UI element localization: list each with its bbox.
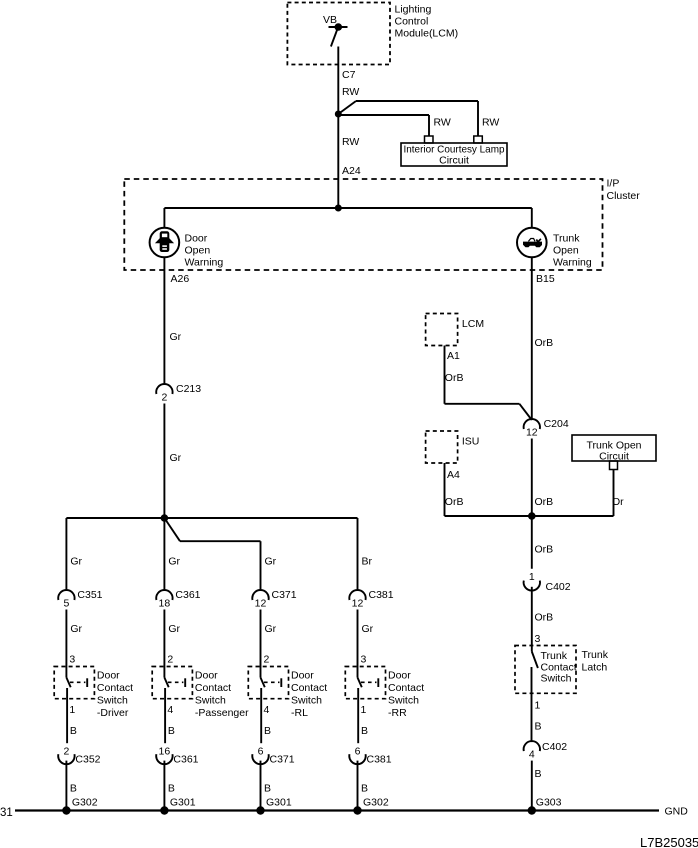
svg-text:2: 2 [264,654,270,666]
svg-text:Control: Control [395,16,429,28]
svg-text:C361: C361 [173,753,198,765]
svg-text:Switch: Switch [195,694,226,706]
svg-text:B: B [168,783,175,795]
svg-text:12: 12 [352,597,364,609]
svg-text:31: 31 [0,807,13,819]
svg-text:Open: Open [553,245,579,257]
svg-text:C213: C213 [176,383,201,395]
svg-text:OrB: OrB [535,496,554,508]
svg-text:Gr: Gr [265,556,277,568]
svg-text:Lighting: Lighting [395,4,432,16]
svg-text:RW: RW [342,86,359,98]
svg-text:G301: G301 [266,797,292,809]
svg-text:ISU: ISU [462,436,480,448]
svg-text:-RL: -RL [291,707,308,719]
svg-text:Circuit: Circuit [439,155,469,167]
svg-text:B: B [535,768,542,780]
svg-text:-Driver: -Driver [97,707,129,719]
svg-text:LCM: LCM [462,318,484,330]
svg-text:4: 4 [529,748,535,760]
svg-text:A24: A24 [342,165,361,177]
svg-text:B15: B15 [536,273,555,285]
svg-text:VB: VB [323,14,337,26]
svg-text:Switch: Switch [388,694,419,706]
svg-text:C381: C381 [367,753,392,765]
svg-text:Gr: Gr [70,556,82,568]
svg-text:18: 18 [159,597,171,609]
svg-text:B: B [264,725,271,737]
svg-text:G302: G302 [72,797,98,809]
svg-text:1: 1 [361,704,367,716]
svg-text:2: 2 [63,745,69,757]
svg-text:OrB: OrB [445,496,464,508]
svg-text:Open: Open [185,245,211,257]
svg-text:C402: C402 [542,741,567,753]
svg-text:Br: Br [362,556,373,568]
svg-text:Contact: Contact [291,682,327,694]
svg-text:I/P: I/P [607,178,620,190]
svg-text:Gr: Gr [168,623,180,635]
svg-text:Gr: Gr [362,623,374,635]
svg-text:RW: RW [482,117,499,129]
svg-text:GND: GND [665,806,689,818]
svg-text:4: 4 [264,704,270,716]
svg-text:OrB: OrB [535,612,554,624]
svg-text:C351: C351 [77,589,102,601]
svg-text:Switch: Switch [291,694,322,706]
svg-text:1: 1 [69,704,75,716]
svg-text:B: B [168,725,175,737]
svg-text:6: 6 [258,745,264,757]
svg-text:Door: Door [97,669,120,681]
svg-text:12: 12 [526,426,538,438]
svg-text:3: 3 [535,633,541,645]
svg-text:OrB: OrB [535,544,554,556]
svg-text:B: B [361,783,368,795]
svg-text:Door: Door [195,669,218,681]
svg-text:2: 2 [167,654,173,666]
svg-text:5: 5 [63,597,69,609]
svg-text:G302: G302 [363,797,389,809]
svg-text:-RR: -RR [388,707,407,719]
svg-text:3: 3 [69,654,75,666]
svg-text:Switch: Switch [541,672,572,684]
svg-text:G301: G301 [170,797,196,809]
svg-text:Trunk: Trunk [553,233,580,245]
svg-text:Switch: Switch [97,694,128,706]
svg-text:Gr: Gr [265,623,277,635]
svg-text:Warning: Warning [553,257,592,269]
svg-text:B: B [70,783,77,795]
svg-text:Door: Door [388,669,411,681]
svg-text:RW: RW [434,117,451,129]
svg-text:16: 16 [159,745,171,757]
svg-text:Door: Door [291,669,314,681]
svg-text:A1: A1 [447,350,460,362]
svg-text:OrB: OrB [445,372,464,384]
svg-text:Latch: Latch [582,662,608,674]
svg-text:B: B [535,721,542,733]
svg-text:Module(LCM): Module(LCM) [395,28,459,40]
svg-text:OrB: OrB [535,337,554,349]
svg-text:Contact: Contact [195,682,231,694]
svg-text:Gr: Gr [168,556,180,568]
svg-text:1: 1 [529,571,535,583]
svg-text:12: 12 [255,597,267,609]
svg-text:C371: C371 [270,753,295,765]
svg-text:A4: A4 [447,469,460,481]
svg-text:4: 4 [167,704,173,716]
svg-text:Gr: Gr [170,452,182,464]
svg-text:1: 1 [535,700,541,712]
svg-text:Trunk: Trunk [541,650,568,662]
svg-text:Trunk: Trunk [582,649,609,661]
svg-text:A26: A26 [171,273,190,285]
svg-text:L7B25035: L7B25035 [640,835,698,848]
svg-text:Door: Door [185,233,208,245]
svg-text:G303: G303 [536,797,562,809]
svg-text:B: B [361,725,368,737]
svg-text:C7: C7 [342,69,356,81]
svg-text:RW: RW [342,136,359,148]
svg-text:Contact: Contact [388,682,424,694]
svg-text:C402: C402 [546,581,571,593]
svg-text:-Passenger: -Passenger [195,707,249,719]
svg-text:Contact: Contact [97,682,133,694]
svg-text:C371: C371 [272,589,297,601]
svg-text:6: 6 [355,745,361,757]
svg-text:3: 3 [361,654,367,666]
svg-text:C352: C352 [75,753,100,765]
svg-text:C381: C381 [369,589,394,601]
svg-text:Gr: Gr [70,623,82,635]
svg-text:C204: C204 [544,418,569,430]
svg-text:C361: C361 [175,589,200,601]
svg-text:2: 2 [161,392,167,404]
svg-text:B: B [70,725,77,737]
svg-text:Gr: Gr [170,331,182,343]
svg-text:Warning: Warning [185,257,224,269]
svg-text:B: B [264,783,271,795]
svg-text:Cluster: Cluster [607,190,641,202]
